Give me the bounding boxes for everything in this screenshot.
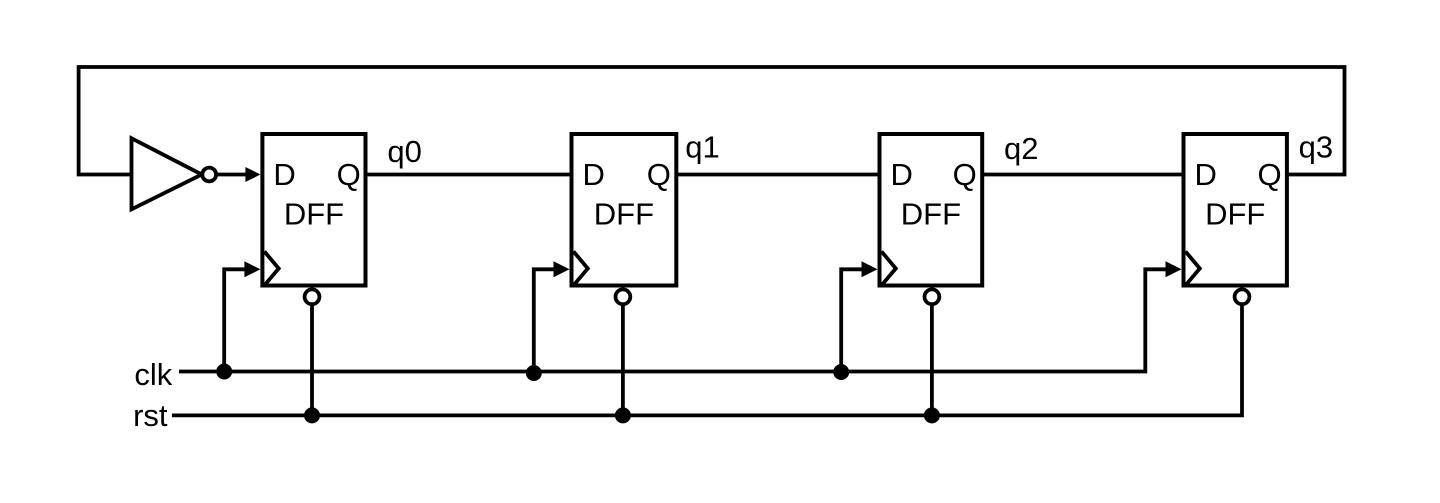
wire rst riser to DFF0 reset bubble xyxy=(310,304,314,416)
wire q2 net from DFF2 Q to DFF3 D xyxy=(982,173,1183,177)
svg-text:Q: Q xyxy=(647,157,671,192)
DFF2 clock wedge xyxy=(882,252,896,286)
arrowhead into DFF1 clock xyxy=(554,261,570,277)
junction rst-DFF0 xyxy=(304,407,320,423)
svg-text:DFF: DFF xyxy=(594,196,654,231)
D flip-flop U3 (DFF1) body xyxy=(572,134,677,286)
DFF0 reset bubble xyxy=(305,289,320,304)
wire clk riser to DFF1 clock xyxy=(534,269,564,371)
svg-text:Q: Q xyxy=(953,157,977,192)
svg-text:DFF: DFF xyxy=(284,196,344,231)
svg-text:q1: q1 xyxy=(685,130,719,165)
svg-text:q3: q3 xyxy=(1299,130,1333,165)
DFF2 reset bubble xyxy=(925,289,940,304)
wire clk riser to DFF2 clock xyxy=(841,269,871,371)
arrowhead into DFF0 D input xyxy=(245,167,260,182)
wire rst net trunk with riser to DFF3 reset bubble xyxy=(172,304,1242,416)
DFF3 reset bubble xyxy=(1235,289,1250,304)
svg-text:D: D xyxy=(273,157,295,192)
wire clk net trunk with riser to DFF3 clock xyxy=(179,269,1176,371)
inverter U1 output bubble xyxy=(202,168,216,182)
DFF0 clock wedge xyxy=(264,252,278,286)
wire inverter output to DFF0 D input xyxy=(218,173,251,177)
svg-text:DFF: DFF xyxy=(901,196,961,231)
svg-text:q2: q2 xyxy=(1004,131,1038,166)
svg-text:D: D xyxy=(583,157,605,192)
DFF1 clock wedge xyxy=(574,252,588,286)
DFF3 clock wedge xyxy=(1186,252,1200,286)
svg-text:rst: rst xyxy=(133,398,168,433)
wire rst riser to DFF1 reset bubble xyxy=(621,304,625,416)
svg-text:D: D xyxy=(891,157,913,192)
junction clk-DFF1 xyxy=(526,365,542,381)
wire feedback loop from q3 output to inverter input xyxy=(79,67,1345,175)
svg-text:q0: q0 xyxy=(387,134,421,169)
wire q0 net from DFF0 Q to DFF1 D xyxy=(366,173,572,177)
svg-text:DFF: DFF xyxy=(1205,196,1265,231)
junction rst-DFF2 xyxy=(924,407,940,423)
junction clk-DFF0 xyxy=(216,364,232,380)
svg-text:D: D xyxy=(1195,157,1217,192)
wire q1 net from DFF1 Q to DFF2 D xyxy=(676,173,879,177)
svg-text:Q: Q xyxy=(1257,157,1281,192)
D flip-flop U5 (DFF3) body xyxy=(1184,134,1287,286)
svg-text:Q: Q xyxy=(337,157,361,192)
junction rst-DFF1 xyxy=(615,407,631,423)
wire clk riser to DFF0 clock xyxy=(224,269,254,371)
D flip-flop U2 (DFF0) body xyxy=(262,134,365,286)
wire rst riser to DFF2 reset bubble xyxy=(930,304,934,416)
arrowhead into DFF2 clock xyxy=(862,261,878,277)
D flip-flop U4 (DFF2) body xyxy=(880,134,983,286)
svg-text:clk: clk xyxy=(134,357,172,392)
inverter U1 triangle xyxy=(132,138,202,209)
DFF1 reset bubble xyxy=(616,289,631,304)
arrowhead into DFF0 clock xyxy=(244,261,260,277)
arrowhead into DFF3 clock xyxy=(1166,261,1182,277)
junction clk-DFF2 xyxy=(833,364,849,380)
